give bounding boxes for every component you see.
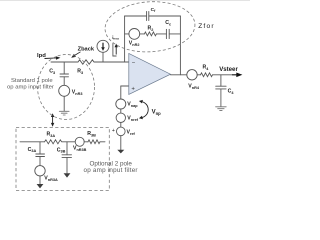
Vnp curved arrow <box>139 100 148 119</box>
top border line <box>0 0 250 1</box>
capacitor C3B <box>62 154 72 156</box>
wire VnR2 to R2 <box>140 33 145 35</box>
source VnR4 <box>187 70 197 80</box>
wire VnR3A to ground <box>39 176 41 184</box>
wire optional filter input <box>20 141 45 143</box>
svg-text:Standard 1 pole: Standard 1 pole <box>11 78 53 84</box>
ground arrow under chain <box>117 150 124 154</box>
output wire <box>171 74 187 76</box>
wire Vnap to Vnref <box>120 109 122 113</box>
wire C3A to VnR3A <box>39 157 41 166</box>
wire Zfor bottom branch left <box>125 33 129 35</box>
source Vnap <box>116 99 126 109</box>
capacitor Cc <box>165 29 167 38</box>
wire R3A to VnR3B <box>62 141 75 143</box>
svg-text:Vnp: Vnp <box>152 109 162 116</box>
Zback arrow <box>71 52 80 58</box>
wire R4 to Vsteer node <box>213 74 237 76</box>
wire node C to C3B <box>66 142 68 155</box>
resistor R2 <box>144 32 156 36</box>
capacitor Cf <box>146 12 148 21</box>
ground arrow under C3B <box>64 173 71 177</box>
source VnR2 <box>129 29 140 40</box>
wire C3 to VnR3 <box>63 77 65 86</box>
Zfor right wire <box>179 16 181 75</box>
wire Vnref to Vref <box>120 123 122 128</box>
source VnR3 <box>59 85 70 96</box>
capacitor C3 <box>60 73 69 75</box>
op-amp U1 <box>129 53 171 94</box>
source Vnref <box>116 113 125 122</box>
source Vref <box>117 127 126 136</box>
svg-text:Vsteer: Vsteer <box>219 66 238 73</box>
ground under C4 <box>216 107 227 111</box>
resistor R3 <box>76 60 96 64</box>
wire R2 to Cc <box>156 33 166 35</box>
wire node A to C3 <box>63 62 65 74</box>
wire Vsteer node to C4 <box>220 75 222 86</box>
wire inoa source to main wire <box>102 52 104 62</box>
svg-text:Ipd: Ipd <box>37 53 46 59</box>
wire Zfor top branch right <box>149 15 181 17</box>
ground arrow under VnR3A <box>37 184 44 188</box>
wire C3B to ground <box>66 157 68 173</box>
resistor R3B <box>88 140 100 144</box>
svg-text:op amp input filter: op amp input filter <box>7 85 54 91</box>
wire C4 to ground <box>220 89 222 107</box>
current source inoa <box>97 40 109 52</box>
wire Vref to ground <box>120 136 122 150</box>
wire node B to C3A <box>39 142 41 154</box>
svg-text:Zfor: Zfor <box>198 23 215 30</box>
svg-text:Zback: Zback <box>78 46 95 52</box>
wire main input <box>51 61 76 63</box>
inoa up arrow <box>115 44 118 55</box>
svg-text:op amp input filter: op amp input filter <box>84 167 138 174</box>
wire R3 to inverting input <box>96 61 129 63</box>
capacitor C3A <box>36 153 45 155</box>
resistor R4 <box>201 73 213 77</box>
inoa direction mark <box>113 44 116 57</box>
double arrow <box>51 113 54 127</box>
wire VnR3 to ground <box>63 96 65 111</box>
dashed ellipse Zfor <box>104 0 197 55</box>
wire noninverting input <box>121 85 129 87</box>
wire Cc to Zfor right <box>169 33 180 35</box>
dashed ellipse standard filter <box>38 55 95 120</box>
wire Zfor top branch left <box>125 15 147 17</box>
svg-text:+: + <box>131 87 135 93</box>
wire VnR4 to R4 <box>197 74 200 76</box>
Ipd arrow <box>45 56 61 60</box>
source VnR3A <box>35 166 45 176</box>
wire VnR3B to R3B <box>84 141 88 143</box>
current source arrow inside <box>101 43 105 51</box>
output arrow Vsteer <box>232 73 242 78</box>
wire R3B output <box>100 141 105 143</box>
svg-text:−: − <box>132 61 136 67</box>
svg-text:+: + <box>112 128 115 134</box>
resistor R3A <box>45 140 62 144</box>
source VnR3B <box>75 137 84 146</box>
dashed rect optional filter <box>16 127 109 190</box>
capacitor C4 <box>216 85 226 87</box>
Zfor loop left wire <box>124 16 126 62</box>
ground under VnR3 <box>59 111 69 115</box>
